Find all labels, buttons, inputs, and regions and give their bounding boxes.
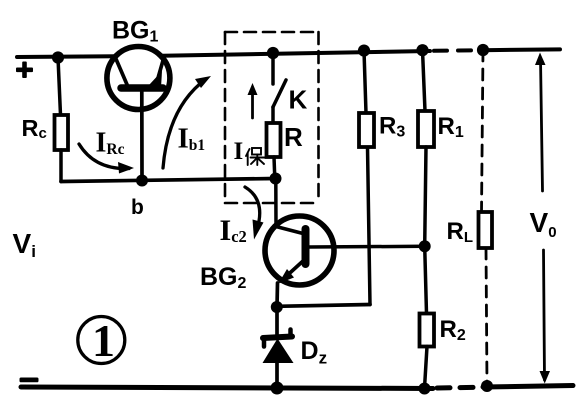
wire b node horizontal bbox=[61, 179, 276, 182]
label Vi bbox=[13, 228, 36, 261]
svg-text:R2: R2 bbox=[440, 316, 466, 344]
label V0 bbox=[530, 207, 557, 241]
label R1 bbox=[438, 113, 464, 141]
wire top rail left bbox=[17, 54, 115, 59]
arrow I_b1 bbox=[163, 76, 211, 168]
svg-text:R3: R3 bbox=[379, 113, 405, 141]
svg-text:Dz: Dz bbox=[301, 337, 328, 368]
resistor R1 bbox=[418, 50, 434, 246]
transistor BG2 bbox=[265, 216, 425, 307]
wire bottom rail right bbox=[483, 386, 573, 388]
measurement arrow V0 bbox=[535, 53, 550, 384]
svg-text:IRc: IRc bbox=[96, 128, 125, 159]
svg-text:R1: R1 bbox=[438, 113, 464, 141]
wire bottom rail left bbox=[21, 387, 433, 389]
svg-text:R: R bbox=[284, 122, 303, 152]
node junction dot RL top bbox=[477, 44, 489, 56]
arrow I_bao bbox=[248, 83, 258, 118]
svg-text:Vi: Vi bbox=[13, 228, 36, 261]
label K bbox=[289, 85, 308, 115]
resistor Rc bbox=[55, 58, 69, 182]
svg-text:BG1: BG1 bbox=[112, 17, 159, 46]
label BG1 bbox=[112, 17, 159, 46]
wire emitter to R3 bottom bbox=[277, 147, 370, 306]
label I_c2 bbox=[220, 214, 247, 247]
node junction dot R3 top bbox=[358, 45, 370, 57]
svg-text:V0: V0 bbox=[530, 207, 557, 241]
node - terminal bbox=[20, 378, 39, 383]
resistor R bbox=[267, 123, 281, 179]
label b bbox=[131, 196, 144, 219]
label R bbox=[284, 122, 303, 152]
wire bottom rail dashed bbox=[437, 385, 482, 391]
svg-text:BG2: BG2 bbox=[200, 263, 247, 292]
label I_b1 bbox=[178, 123, 206, 155]
zener diode Dz bbox=[263, 307, 294, 388]
svg-text:Ib1: Ib1 bbox=[178, 123, 206, 155]
label Dz bbox=[301, 337, 328, 368]
label R3 bbox=[379, 113, 405, 141]
arrow I_Rc bbox=[79, 144, 134, 174]
label BG2 bbox=[200, 263, 247, 292]
label I_Rc bbox=[96, 128, 125, 159]
svg-text:Ic2: Ic2 bbox=[220, 214, 247, 247]
transistor BG1 bbox=[107, 47, 170, 178]
node dot R2 bottom bbox=[419, 383, 431, 395]
svg-text:K: K bbox=[289, 85, 308, 115]
node dot under R bbox=[270, 173, 282, 185]
node dot Dz bottom bbox=[271, 382, 284, 395]
node junction dot K top bbox=[267, 47, 279, 59]
load RL dashed branch bbox=[479, 50, 493, 386]
resistor R2 bbox=[420, 246, 435, 388]
switch K bbox=[273, 53, 286, 123]
wire node to BG2 bbox=[274, 179, 278, 227]
node b dot bbox=[136, 175, 148, 187]
node + terminal bbox=[16, 62, 33, 79]
label RL bbox=[447, 218, 474, 246]
label Rc bbox=[22, 115, 47, 142]
svg-text:1: 1 bbox=[92, 315, 115, 366]
node dot BG2 emitter bbox=[271, 301, 283, 313]
wire top rail right bbox=[481, 47, 560, 52]
protection dashed box bbox=[225, 32, 319, 203]
wire top rail dashed section bbox=[434, 48, 480, 53]
label I_bao bbox=[234, 138, 265, 165]
node dot RL bottom bbox=[481, 380, 493, 392]
node junction dot R1 top bbox=[416, 44, 428, 56]
svg-text:b: b bbox=[131, 196, 144, 219]
label R2 bbox=[440, 316, 466, 344]
resistor R3 bbox=[359, 51, 374, 147]
svg-text:Rc: Rc bbox=[22, 115, 47, 142]
svg-text:I: I bbox=[234, 138, 244, 165]
arrow I_c2 bbox=[245, 187, 264, 240]
node dot collector junction bbox=[419, 240, 431, 252]
node junction dot Rc top bbox=[52, 51, 64, 63]
figure number 1 circled bbox=[78, 315, 125, 366]
wire top rail middle bbox=[162, 51, 430, 56]
svg-text:RL: RL bbox=[447, 218, 474, 246]
